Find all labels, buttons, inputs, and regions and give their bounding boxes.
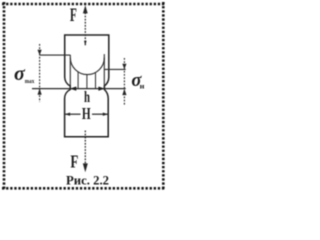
sigma max dimension line — [38, 44, 42, 102]
hatch line 2 — [86, 74, 88, 88]
diagram left edge vertical — [69, 55, 71, 89]
hatch line 3 — [95, 72, 97, 88]
svg-text:Рис. 2.2: Рис. 2.2 — [66, 172, 109, 187]
h dimension left arrowhead — [70, 87, 76, 91]
sigma n dimension line — [122, 58, 126, 106]
force F arrow top — [83, 5, 88, 46]
H dimension line left part — [65, 113, 81, 115]
svg-text:H: H — [82, 104, 91, 123]
hatch line 1 — [77, 71, 79, 88]
dotted page border top — [2, 3, 165, 6]
dotted page border right — [162, 2, 165, 190]
H dimension left arrowhead — [65, 113, 70, 116]
H dimension right arrowhead — [103, 113, 108, 116]
dotted page border left — [3, 2, 6, 190]
H dimension line right part — [92, 113, 108, 115]
svg-text:F: F — [70, 152, 78, 172]
svg-text:F: F — [70, 5, 77, 26]
stress distribution curve — [70, 58, 104, 75]
specimen bar outline — [65, 35, 109, 137]
dotted page border bottom — [2, 187, 165, 190]
minimal section line (h dimension line) — [32, 88, 126, 90]
svg-text:max: max — [25, 78, 35, 85]
force F arrow bottom — [83, 131, 88, 173]
sigma max level line — [40, 54, 71, 56]
h dimension right arrowhead — [98, 87, 104, 91]
sigma nominal level line — [104, 68, 125, 70]
svg-text:н: н — [140, 82, 145, 91]
diagram right edge vertical — [103, 54, 105, 88]
